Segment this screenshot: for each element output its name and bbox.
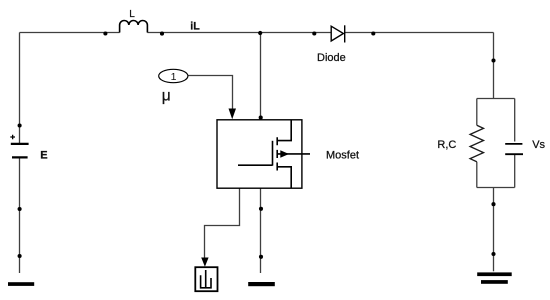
- mosfet internal symbol: [238, 120, 310, 188]
- wire mu signal to gate arrow: [188, 76, 233, 111]
- mosfet drain connection: [277, 120, 291, 141]
- ground middle: [248, 282, 275, 286]
- wire right vertical to ground: [493, 188, 495, 272]
- pulse measurement box: [195, 267, 217, 291]
- svg-text:R,C: R,C: [437, 139, 456, 151]
- node dot rail B: [160, 32, 164, 36]
- node dot mosfet drain top: [259, 116, 263, 120]
- node dot diode anode: [312, 31, 316, 35]
- svg-text:L: L: [129, 9, 135, 20]
- wire mosfet bottom to pulse box: [205, 188, 240, 258]
- inductor L: [120, 20, 148, 32]
- wire left vertical from rail to battery: [19, 33, 21, 144]
- svg-text:iL: iL: [190, 21, 200, 33]
- node dot battery wire mid: [18, 207, 22, 211]
- arrowhead into pulse box: [201, 258, 208, 267]
- source block mu (constant 1): [159, 69, 188, 82]
- mosfet source connection: [277, 167, 291, 188]
- battery E plus sign: [10, 135, 15, 140]
- ground right bottom bar: [481, 280, 508, 284]
- diode D: [331, 25, 345, 42]
- wire resistor branch leads: [476, 99, 478, 188]
- svg-text:1: 1: [171, 71, 177, 83]
- wire top rail left segment: [20, 32, 120, 34]
- pulse glyph: [201, 270, 211, 288]
- mosfet gate bar: [272, 141, 274, 166]
- node dot battery top: [18, 123, 22, 127]
- wire top rail corner down right side: [493, 33, 495, 99]
- wire top rail right segment: [345, 32, 494, 34]
- node dot battery wire low: [18, 254, 22, 258]
- svg-text:Diode: Diode: [317, 52, 346, 64]
- mosfet U1 block box: [217, 120, 302, 188]
- mosfet body arrowhead: [280, 150, 289, 158]
- svg-text:E: E: [40, 149, 47, 161]
- wire RC top rail: [477, 98, 515, 100]
- node dot right vertical upper: [491, 58, 495, 62]
- capacitor C plates: [505, 144, 523, 154]
- ground left: [8, 282, 34, 286]
- node dot right wire lower: [491, 252, 495, 256]
- svg-text:Vs: Vs: [532, 139, 545, 151]
- mosfet channel segments: [276, 137, 278, 170]
- node dot right wire upper: [491, 202, 495, 206]
- wire battery negative to ground: [19, 159, 21, 274]
- wire top rail middle segment: [147, 32, 331, 34]
- node dot middle wire lower: [259, 255, 263, 259]
- mosfet body line: [277, 153, 310, 155]
- mosfet gate lead: [238, 164, 273, 166]
- resistor R zigzag: [470, 125, 483, 161]
- ground right top bar: [477, 272, 512, 276]
- node dot rail C (drain branch): [258, 31, 262, 35]
- arrowhead gate signal: [229, 109, 237, 120]
- wire RC bottom rail: [477, 187, 515, 189]
- svg-text:μ: μ: [162, 88, 171, 105]
- node dot rail A: [103, 31, 107, 35]
- node dot middle wire upper: [259, 207, 263, 211]
- wire mosfet bottom to middle ground: [260, 188, 262, 273]
- wire capacitor branch leads: [514, 99, 516, 188]
- battery E plates: [11, 144, 29, 158]
- wire node branch down to mosfet drain: [260, 33, 262, 120]
- node dot diode cathode: [371, 31, 375, 35]
- svg-text:Mosfet: Mosfet: [326, 150, 359, 162]
